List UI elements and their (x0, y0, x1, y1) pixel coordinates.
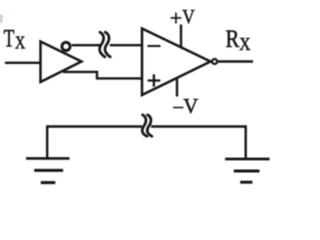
ground interconnect wire right segment (151, 125, 246, 127)
wire inverted output to break (72, 44, 100, 46)
svg-text:V: V (182, 6, 195, 28)
svg-text:T: T (4, 26, 15, 53)
ground interconnect wire left segment (47, 125, 142, 127)
wire non-inverted output with step down to op-amp plus input (63, 72, 142, 79)
op-amp output bubble (212, 59, 217, 64)
svg-text:V: V (183, 94, 198, 118)
svg-text:+: + (170, 6, 182, 31)
svg-text:X: X (15, 33, 26, 53)
svg-text:X: X (239, 34, 251, 54)
wire break to op-amp minus input (110, 44, 142, 46)
driver U1 triangle (41, 42, 82, 83)
left ground lead (46, 125, 48, 159)
wire Tx input (5, 62, 41, 64)
cable break symbol top wire (100, 32, 105, 57)
+V supply wire (180, 25, 182, 48)
op-amp plus input sign (148, 74, 161, 87)
-V supply wire (176, 78, 178, 97)
node Rx label (226, 26, 251, 54)
driver U1 inverting bubble (62, 42, 70, 50)
cable break symbol bottom wire (142, 115, 147, 137)
+V label (170, 6, 196, 31)
right ground symbol (225, 158, 270, 161)
blue scan artifact top-left (0, 14, 3, 23)
left ground symbol (26, 157, 70, 160)
svg-text:R: R (226, 26, 240, 53)
-V label (172, 94, 198, 120)
op-amp U2 triangle (142, 29, 211, 96)
op-amp minus input sign (148, 45, 161, 47)
wire Rx output (218, 60, 253, 62)
right ground lead (244, 125, 246, 159)
node Tx label (4, 26, 26, 53)
